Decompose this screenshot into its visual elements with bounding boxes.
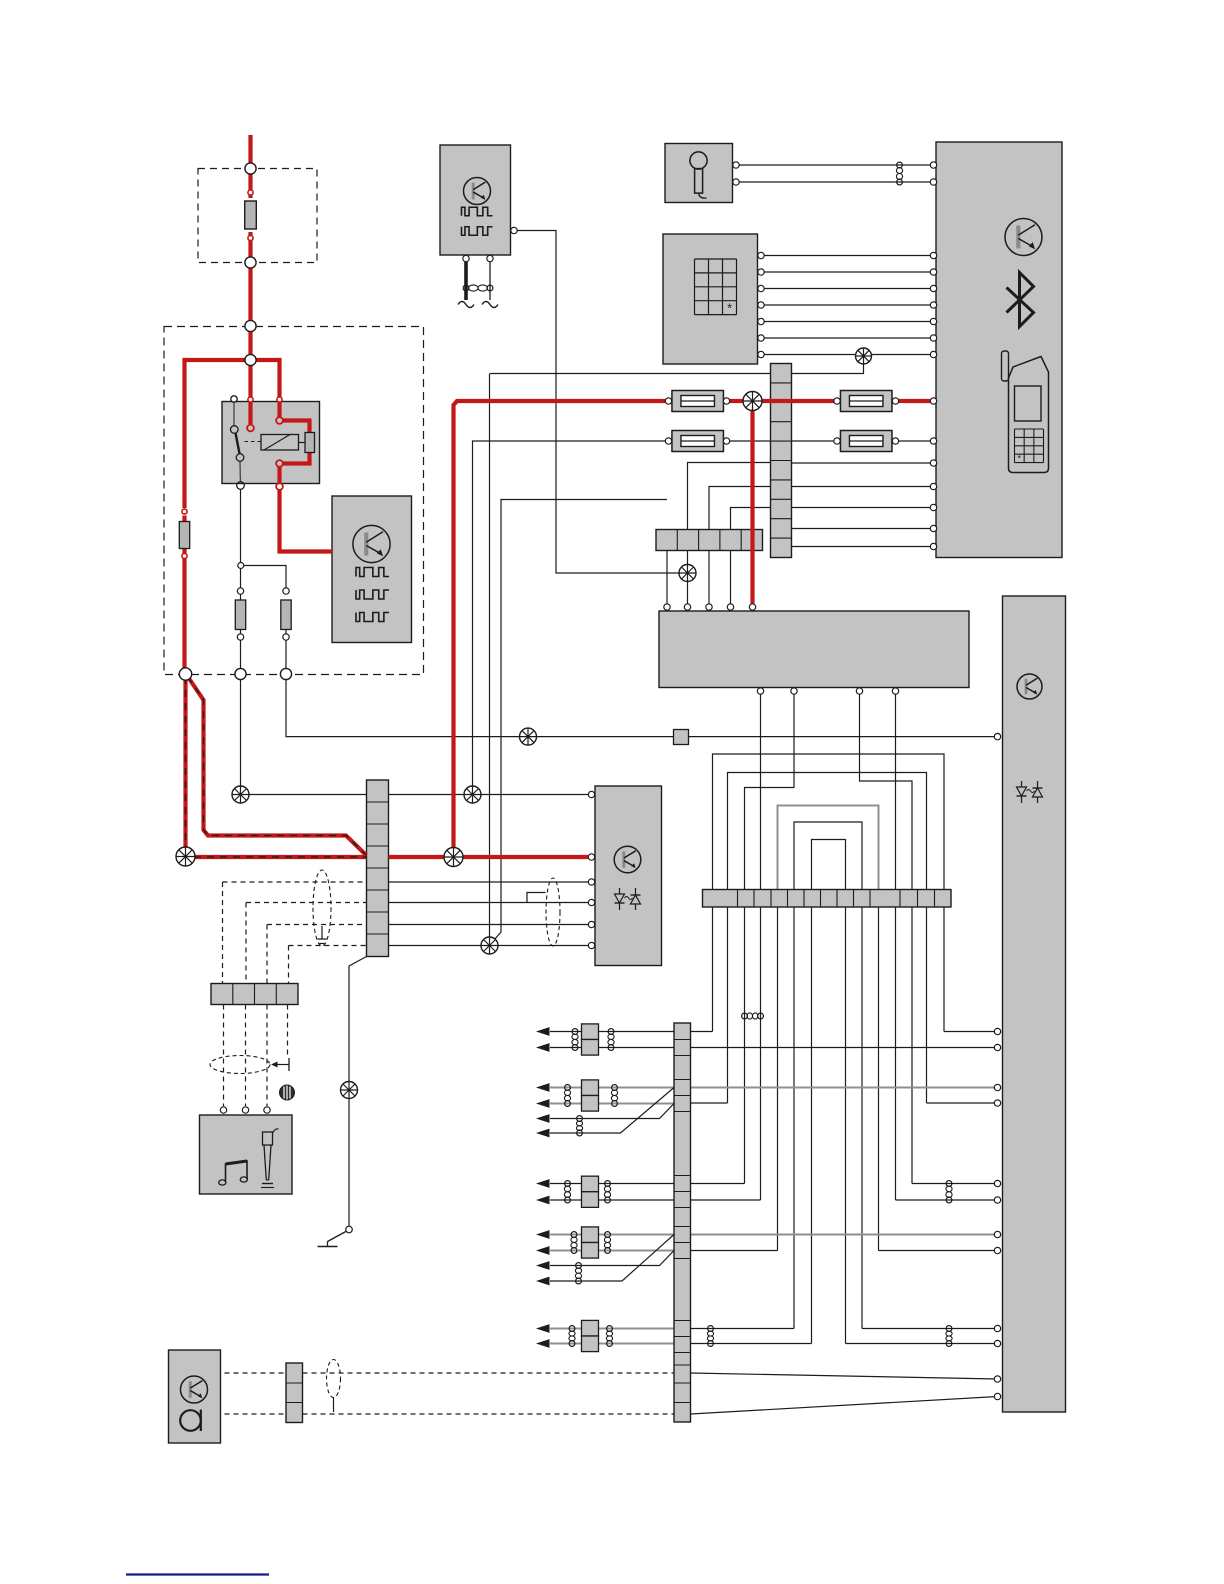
red fuse body left branch xyxy=(179,522,189,549)
twisted marker module C leads xyxy=(463,285,493,291)
red/black striped feed diagonal branch xyxy=(188,677,367,855)
twisted marker on phone speaker pair xyxy=(742,1013,764,1019)
module B wires right of connector xyxy=(389,881,592,883)
fuse in holder xyxy=(245,201,257,229)
svg-text:*: * xyxy=(727,301,732,316)
relay switch output wire xyxy=(240,490,242,563)
connector V2 right wires to phone module xyxy=(792,462,934,464)
fuse f-right leads xyxy=(285,630,287,669)
antenna tap symbol xyxy=(271,1058,289,1071)
dashed verticals to strip H2 xyxy=(222,882,224,984)
module D transistor symbol xyxy=(181,1376,208,1403)
wire corner x501 xyxy=(491,500,667,944)
red bus V1 to module B xyxy=(389,855,589,859)
speaker group 2 extra rows xyxy=(550,1104,674,1119)
phone module terminals xyxy=(930,162,936,168)
connector strip V2 xyxy=(771,364,792,558)
red branch into relay xyxy=(248,360,252,424)
radio terminals xyxy=(220,1107,226,1113)
fuse f-right body xyxy=(281,600,291,630)
connector strip H2 xyxy=(211,984,298,1005)
red drop to junction box xyxy=(750,401,754,604)
wire strip V1 bottom to ground switch xyxy=(349,957,367,1227)
vertical wire x490 xyxy=(489,374,491,946)
shield ellipse left harness xyxy=(313,870,331,946)
relay compartment dashed box xyxy=(164,327,424,675)
red riser x453 xyxy=(454,401,669,849)
splice S10 xyxy=(520,728,537,745)
radio music note icon xyxy=(219,1161,248,1185)
connector strip V3 xyxy=(674,1023,691,1422)
module A transistor symbol xyxy=(353,525,390,562)
red battery feed from top xyxy=(248,135,252,163)
speaker group 3 rows xyxy=(550,1183,674,1185)
wire mic row 1 xyxy=(736,164,934,166)
bluetooth rune xyxy=(1007,273,1034,327)
in-line connector square SQ1 xyxy=(674,730,689,745)
shield step symbol row 902 xyxy=(527,893,546,903)
red branch to relay coil side xyxy=(251,360,280,417)
wire mic row 2 xyxy=(736,181,934,183)
connector V2 left wires from strip H1 xyxy=(688,463,771,530)
module B transistor symbol xyxy=(614,846,641,873)
wire x241 node to splice S5 xyxy=(240,680,242,787)
connector strip H1 xyxy=(656,530,763,551)
nest loop 2 xyxy=(728,773,927,890)
speaker group 5 rows gray xyxy=(550,1328,674,1330)
relay switch blade xyxy=(236,433,240,454)
wire y737 to amplifier xyxy=(689,736,998,738)
speaker group 2 rows gray xyxy=(550,1087,674,1089)
dashed wires module B to radio harness xyxy=(223,881,367,883)
fuse FR1 xyxy=(840,391,892,412)
footer link line xyxy=(126,1573,269,1575)
module A pulse unit box xyxy=(332,496,412,643)
speaker group 3 connector xyxy=(582,1176,599,1192)
big nodes on dashed box lower edge xyxy=(179,668,191,680)
splice S7 xyxy=(481,937,498,954)
speaker group 2 connector xyxy=(582,1080,599,1096)
speaker group 5 connector xyxy=(582,1320,599,1336)
relay K1 box xyxy=(222,402,320,484)
module C antenna leads xyxy=(464,262,468,300)
antenna feed rows to amplifier xyxy=(691,1373,998,1379)
module B terminals xyxy=(588,791,594,797)
fuse FL1 xyxy=(672,391,724,412)
node dot under relay xyxy=(238,563,244,569)
splice S5 xyxy=(232,786,249,803)
connector strip V1 xyxy=(367,780,389,957)
fuse FL2 xyxy=(672,431,724,452)
speaker group 1 connector xyxy=(582,1024,599,1040)
module C output terminal xyxy=(511,227,517,233)
fuse f-left body xyxy=(235,600,245,630)
strip H1 lower pin wires to junction box xyxy=(666,551,668,604)
keypad terminals xyxy=(758,252,764,258)
speaker group 4 extra rows xyxy=(550,1251,674,1266)
fuse holder dashed box xyxy=(198,169,317,263)
junction box upper terminals xyxy=(664,604,670,610)
speaker group 4 rows gray xyxy=(550,1234,674,1236)
connector strip V4 xyxy=(286,1363,303,1423)
amplifier transistor symbol xyxy=(1017,674,1042,699)
module D dashed wires xyxy=(225,1372,287,1374)
nest loop 4 xyxy=(794,822,862,890)
antenna lead shield ellipse xyxy=(327,1360,341,1398)
twisted pair marker mic wires xyxy=(896,162,902,185)
module B triac symbol xyxy=(615,888,641,910)
speaker group 1 rows xyxy=(550,1031,674,1033)
amplifier triac symbol xyxy=(1017,781,1043,803)
radio antenna mast icon xyxy=(261,1129,279,1188)
splice S8 on pin2 wire xyxy=(679,565,696,582)
wire y441 fuse row xyxy=(473,441,669,795)
connector strip H3 xyxy=(703,890,952,908)
splice S2 xyxy=(444,848,463,867)
module D letter a glyph xyxy=(180,1410,201,1432)
relay coil xyxy=(261,435,299,451)
radio unit box xyxy=(200,1115,293,1194)
relay actuation dashed link xyxy=(245,441,262,443)
group3 right links xyxy=(691,1183,745,1185)
splice S4 xyxy=(464,786,481,803)
module C pulse glyphs xyxy=(462,207,493,216)
microphone icon xyxy=(690,152,707,198)
group5 right links xyxy=(691,1328,795,1330)
red coil loop xyxy=(283,421,310,464)
keypad unit box xyxy=(663,234,758,364)
wire y441 right fuse row xyxy=(792,440,838,442)
nest wire A xyxy=(760,695,762,890)
shield drain symbol xyxy=(318,926,327,944)
red branch left to fuse xyxy=(185,360,249,508)
microphone unit box xyxy=(665,144,733,203)
bluetooth phone module box xyxy=(936,142,1062,558)
ground switch xyxy=(318,1226,353,1246)
red relay output to module A xyxy=(277,467,281,483)
splice S9 xyxy=(341,1082,358,1099)
amplifier terminals xyxy=(994,733,1000,739)
wavy continuation marks xyxy=(458,302,474,308)
wire keypad row7 branch to connector xyxy=(792,356,864,374)
coax connector symbol xyxy=(280,1085,295,1100)
red bus y401 fuses to phone module xyxy=(727,399,838,403)
fuse f-left leads xyxy=(240,569,242,601)
nest wire D xyxy=(895,695,897,890)
module D antenna unit box xyxy=(169,1350,221,1443)
nest loop 3 gray xyxy=(778,806,879,890)
red/black striped feed down xyxy=(183,677,187,849)
module A pulse glyphs xyxy=(356,568,389,577)
node circles battery feed xyxy=(245,163,256,174)
module C transistor symbol xyxy=(464,178,491,205)
splice S3 red bus xyxy=(743,392,762,411)
nest wire C xyxy=(860,695,913,890)
group1 right links xyxy=(691,1031,713,1033)
nest loop 5 xyxy=(812,840,846,890)
splice S1 xyxy=(176,847,195,866)
red/black row to connector V1 xyxy=(194,855,367,859)
nest loop 1 xyxy=(713,754,945,890)
speaker group 4 connector xyxy=(582,1227,599,1243)
relay switch pin xyxy=(231,396,237,402)
module B control unit box xyxy=(595,786,662,966)
wire y373 connector to module C side xyxy=(490,373,771,375)
junction box lower terminals xyxy=(757,688,763,694)
shield ellipse radio harness xyxy=(210,1056,270,1074)
wire to right fuse branch xyxy=(244,566,286,588)
cell phone icon xyxy=(1002,351,1049,473)
strip H3 drop wires xyxy=(712,907,714,1032)
wire y794 row xyxy=(241,794,592,796)
splice on keypad row 7 xyxy=(856,348,872,364)
relay switch pivot xyxy=(231,426,239,434)
dashed wires strip H2 to radio xyxy=(223,1005,225,1107)
wires keypad rows xyxy=(761,255,934,257)
microphone terminals xyxy=(733,162,739,168)
fuse FR2 xyxy=(840,431,892,452)
wire from module C output xyxy=(514,231,688,574)
svg-text:*: * xyxy=(1018,453,1022,463)
bluetooth module transistor symbol xyxy=(1005,219,1042,256)
keypad icon xyxy=(695,259,737,316)
group2 right links xyxy=(691,1087,998,1089)
junction box W xyxy=(659,611,969,688)
shield ellipse right xyxy=(546,878,560,946)
wire x286 node to y737 row xyxy=(286,680,674,737)
group4 right links xyxy=(691,1234,998,1236)
nest wire B xyxy=(745,695,795,890)
coil suppression resistor xyxy=(305,433,315,453)
amplifier box xyxy=(1003,596,1066,1412)
module C pulse unit box xyxy=(440,145,511,255)
